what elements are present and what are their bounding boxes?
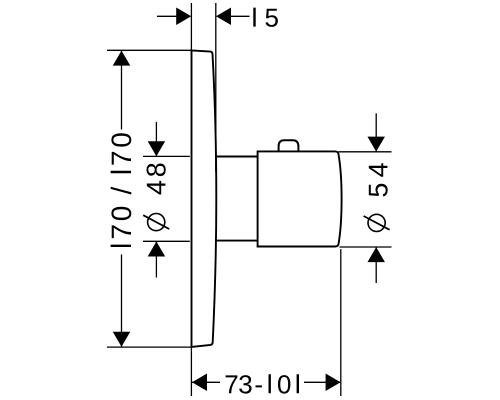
dim48 label "Ø 48": [143, 164, 170, 232]
dim73-101 arrow right-pointing: [326, 374, 341, 392]
dim15 arrow right-pointing: [176, 8, 191, 26]
dim54 line top: [375, 113, 377, 151]
dim48 tick top: [143, 155, 190, 157]
dim73-101 extension line right: [340, 249, 342, 396]
dim170 label background: [108, 130, 134, 255]
dim48 arrow down: [148, 141, 166, 156]
dim48 line top: [155, 122, 157, 156]
dim48 tick bottom: [143, 240, 190, 242]
valve stem bottom line: [215, 240, 257, 242]
dim170 label "170 / 170": [111, 133, 132, 247]
dim15 leader left: [157, 15, 177, 17]
handle button: [279, 140, 299, 150]
dim15 label "15": [253, 8, 278, 27]
dim73-101 label "73-101": [226, 374, 299, 393]
dim170 dimension line: [121, 51, 123, 347]
dim48 arrow up: [148, 242, 166, 257]
handle body: [258, 151, 342, 246]
dim73-101 dimension line: [192, 381, 341, 383]
dim54 line bottom: [375, 247, 377, 283]
dim15 extension line left: [190, 3, 192, 50]
dim54 arrow up: [367, 247, 385, 262]
dim170 extension line bottom: [107, 346, 192, 348]
dim170 extension line top: [107, 49, 192, 51]
dim170 arrow up: [113, 51, 131, 66]
dim73-101 label background: [220, 372, 304, 396]
dim54 tick bottom: [340, 246, 392, 248]
escutcheon plate (side view): [192, 50, 217, 347]
dim54 tick top: [339, 151, 392, 153]
dim15 leader right: [231, 15, 250, 17]
dim48 line bottom: [155, 242, 157, 278]
dim54 arrow down: [367, 137, 385, 152]
dim54 label "Ø 54": [363, 163, 390, 232]
dim73-101 extension line left: [190, 348, 192, 397]
valve stem top line: [215, 156, 257, 158]
dim15 extension line right: [215, 3, 217, 172]
dim73-101 arrow left-pointing: [192, 374, 207, 392]
dim15 arrow left-pointing: [216, 8, 231, 26]
dim170 arrow down: [113, 332, 131, 347]
